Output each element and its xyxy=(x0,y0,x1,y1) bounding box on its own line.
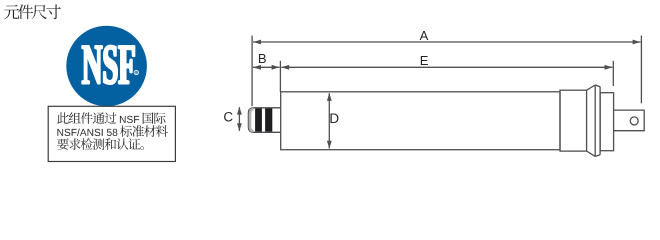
box text line 1 xyxy=(57,112,166,124)
extension line A-right xyxy=(640,36,642,104)
end cap section xyxy=(560,90,587,151)
arrowheads C xyxy=(237,107,242,115)
tube gray shading xyxy=(250,109,254,131)
arrowheads D xyxy=(327,93,332,101)
box text line 2 xyxy=(57,125,168,137)
D dimension arrow line xyxy=(328,93,330,148)
membrane body xyxy=(281,92,560,150)
title 元件尺寸 xyxy=(4,4,61,19)
arrowheads E xyxy=(281,65,289,70)
dimension line B xyxy=(253,66,279,68)
brine seal ring xyxy=(595,85,600,156)
box text line 3 xyxy=(57,138,144,150)
svg-text:E: E xyxy=(420,53,429,68)
NSF logo letters xyxy=(82,46,134,84)
NSF logo circle xyxy=(66,26,147,107)
arrowheads B xyxy=(253,65,261,70)
svg-text:C: C xyxy=(223,109,233,124)
chamfer to brine seal xyxy=(587,85,596,156)
certification text box xyxy=(48,106,175,161)
dimension line A xyxy=(253,41,641,43)
registered mark xyxy=(134,70,138,74)
tab hole xyxy=(630,117,638,125)
svg-text:D: D xyxy=(329,111,339,126)
cap face xyxy=(600,93,614,151)
arrowheads A xyxy=(253,40,261,45)
tube O-ring stripe 1 xyxy=(255,109,262,132)
extension line B/E xyxy=(279,61,281,92)
svg-text:A: A xyxy=(420,28,429,43)
extension line E-right xyxy=(612,61,614,86)
svg-text:B: B xyxy=(258,51,267,66)
permeate tube outline xyxy=(248,108,280,133)
dimension line E xyxy=(281,66,612,68)
tube O-ring stripe 2 xyxy=(265,109,272,132)
mounting tab xyxy=(614,110,645,131)
extension line A-left xyxy=(251,36,253,107)
C dimension arrow line xyxy=(238,107,240,131)
